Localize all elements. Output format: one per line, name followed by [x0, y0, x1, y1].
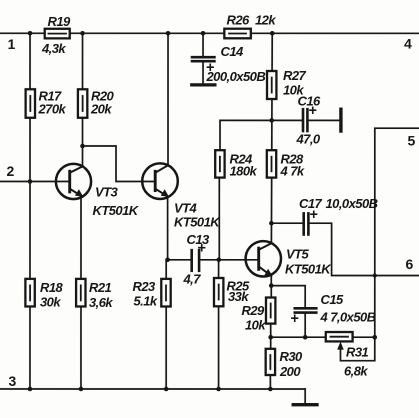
wire VT4 emitter down to C13 node: [167, 196, 169, 260]
svg-text:3,6k: 3,6k: [89, 295, 113, 310]
svg-text:R19: R19: [48, 14, 72, 29]
svg-text:200: 200: [279, 364, 301, 379]
svg-text:6,8k: 6,8k: [344, 364, 368, 379]
svg-text:2: 2: [7, 163, 15, 179]
svg-text:VT5: VT5: [286, 247, 310, 262]
label R18: [40, 280, 64, 310]
svg-text:4,3k: 4,3k: [41, 41, 66, 56]
svg-text:R27: R27: [283, 68, 307, 83]
node R25 rail 3 junction: [216, 387, 221, 392]
wire input 2 to VT3 base: [0, 180, 70, 182]
label VT4: [174, 200, 221, 229]
svg-text:33k: 33k: [228, 289, 249, 304]
svg-text:+: +: [206, 60, 214, 76]
wire VT4 collector to rail: [167, 33, 169, 165]
wire C13 base line to VT5: [168, 259, 259, 261]
label R28: [280, 152, 305, 179]
node VT3 collector R20 junction: [80, 144, 85, 149]
wire bottom rail node 3: [0, 389, 305, 404]
transistor VT4: [142, 163, 178, 199]
svg-text:3: 3: [8, 373, 16, 389]
wire R17 R18 branch: [29, 33, 31, 389]
label R19: [41, 14, 71, 56]
node input 2 R17 R18 junction: [28, 179, 33, 184]
resistor R18: [25, 279, 34, 307]
label R21: [89, 280, 113, 310]
capacitor C13: [192, 250, 199, 271]
node 3: [8, 373, 16, 389]
label R25: [226, 279, 250, 305]
resistor R27: [267, 71, 276, 99]
label R31: [344, 345, 369, 379]
svg-text:5.1k: 5.1k: [133, 293, 157, 308]
capacitor C17: [304, 213, 309, 234]
svg-text:47,0: 47,0: [296, 132, 321, 147]
label R26: [227, 13, 277, 28]
svg-text:VT3: VT3: [95, 184, 119, 199]
svg-text:VT4: VT4: [174, 200, 198, 215]
label C13: [182, 232, 210, 287]
node R17 top rail junction: [28, 31, 33, 36]
wire R20 branch: [82, 33, 84, 166]
resistor R30: [266, 349, 275, 375]
svg-text:R23: R23: [132, 279, 156, 294]
node VT5 emitter junction: [269, 283, 274, 288]
node 2: [7, 163, 15, 179]
label C16: [296, 94, 322, 147]
svg-text:KT501K: KT501K: [285, 262, 332, 277]
svg-text:C15: C15: [320, 292, 344, 307]
svg-text:4,7: 4,7: [182, 271, 201, 286]
node R23 rail 3 junction: [164, 387, 169, 392]
svg-text:KT501K: KT501K: [174, 214, 221, 229]
node R27 rail junction: [270, 31, 275, 36]
wire node at y120 to R24: [220, 120, 302, 150]
wire emitter to C15 top: [271, 286, 305, 308]
svg-text:180k: 180k: [230, 164, 258, 179]
resistor R19: [45, 29, 70, 39]
node R27 R28 C16 junction: [269, 118, 274, 123]
svg-text:+: +: [309, 103, 317, 119]
wire R23 branch to rail 3: [165, 260, 167, 389]
svg-text:270k: 270k: [38, 101, 67, 116]
resistor R23: [161, 279, 170, 307]
svg-text:KT501K: KT501K: [92, 203, 139, 218]
svg-text:R21: R21: [89, 280, 112, 295]
wire VT5 emitter node: [270, 276, 272, 298]
svg-text:R29: R29: [241, 303, 265, 318]
svg-text:6: 6: [405, 256, 413, 272]
node R31 right junction: [372, 335, 377, 340]
svg-text:+: +: [290, 311, 298, 327]
transistor VT5: [246, 241, 281, 276]
VT5 emitter arrow: [264, 269, 272, 277]
node VT4 emitter C13 junction: [165, 257, 170, 262]
resistor R17: [26, 89, 35, 118]
node R21 rail 3 junction: [79, 387, 84, 392]
transistor VT3: [56, 164, 91, 199]
capacitor C15: [295, 308, 317, 312]
wire R24 R25 branch: [218, 178, 221, 389]
label C14: [206, 44, 266, 84]
label R20: [90, 88, 115, 116]
node R29 R30 junction: [268, 335, 273, 340]
wire C14 branch: [202, 33, 204, 84]
node 6: [405, 256, 413, 272]
svg-text:30k: 30k: [40, 294, 61, 309]
svg-text:20k: 20k: [90, 101, 112, 116]
potentiometer R31: [326, 332, 353, 341]
svg-text:C14: C14: [221, 44, 245, 59]
svg-text:4 7k: 4 7k: [280, 164, 305, 179]
ground: [293, 403, 317, 406]
svg-text:+: +: [197, 240, 205, 256]
wire R29 to R30 and R31 run: [271, 324, 375, 349]
node VT5 collector C17 junction: [269, 221, 274, 226]
resistor R20: [78, 89, 87, 118]
VT4 emitter arrow: [161, 189, 169, 197]
resistor R24: [215, 150, 224, 177]
node C14 rail junction: [201, 31, 206, 36]
label VT5: [285, 247, 332, 277]
label R17: [38, 88, 67, 116]
svg-text:+: +: [309, 207, 317, 223]
node 1: [8, 36, 16, 52]
capacitor C16: [303, 109, 307, 131]
terminal pin after C16: [339, 109, 342, 131]
wire top rail node 1-4: [0, 32, 419, 34]
R31 wiper arrow: [337, 342, 344, 350]
VT3 emitter arrow: [75, 189, 83, 197]
node R20 top rail junction: [80, 31, 85, 36]
ground bar below C14: [192, 83, 215, 86]
resistor R21: [76, 279, 85, 307]
svg-text:1: 1: [8, 36, 16, 52]
wire C17 tap to node 6: [271, 223, 419, 275]
svg-text:R31: R31: [346, 345, 369, 360]
label C17: [299, 196, 378, 223]
resistor R26: [224, 29, 251, 39]
resistor R29: [266, 298, 275, 324]
label R27: [283, 68, 307, 98]
wire pin 5 line: [375, 128, 419, 337]
svg-text:12k: 12k: [255, 13, 276, 28]
resistor R25: [214, 278, 223, 306]
label R29: [241, 303, 266, 333]
label R30: [279, 349, 303, 379]
svg-text:10k: 10k: [245, 318, 266, 333]
node line 6 crossing junction: [373, 273, 377, 277]
node R18 rail 3 junction: [28, 387, 33, 392]
wire VT3 collector to VT4 base jog: [83, 146, 156, 182]
wire VT3 emitter to R21 to rail 3: [80, 196, 82, 389]
svg-text:4 7,0x50B: 4 7,0x50B: [319, 310, 375, 325]
wire R27 R28 VT5 collector line: [270, 33, 273, 243]
node R30 rail 3 junction: [268, 387, 273, 392]
node 4: [404, 36, 412, 52]
wire R31 wiper connection: [340, 337, 374, 361]
wire C16 output to terminal: [309, 119, 340, 121]
svg-text:10,0x50B: 10,0x50B: [325, 196, 377, 211]
resistor R28: [267, 150, 276, 177]
wire C15 bottom to R31 line: [304, 314, 306, 338]
capacitor C14: [192, 57, 214, 61]
node R24 R25 junction: [216, 258, 221, 263]
svg-text:R26: R26: [227, 13, 251, 28]
label R23: [132, 279, 157, 309]
node 5: [408, 133, 416, 149]
label VT3: [92, 184, 139, 218]
node VT4 collector rail junction: [166, 31, 171, 36]
svg-text:R18: R18: [40, 280, 64, 295]
node C15 bottom junction: [303, 335, 308, 340]
svg-text:5: 5: [408, 133, 416, 149]
svg-text:R30: R30: [279, 349, 303, 364]
label C15: [290, 292, 375, 327]
wire R30 bottom to rail 3: [269, 375, 271, 389]
label R24: [230, 152, 258, 179]
svg-text:4: 4: [404, 36, 412, 52]
